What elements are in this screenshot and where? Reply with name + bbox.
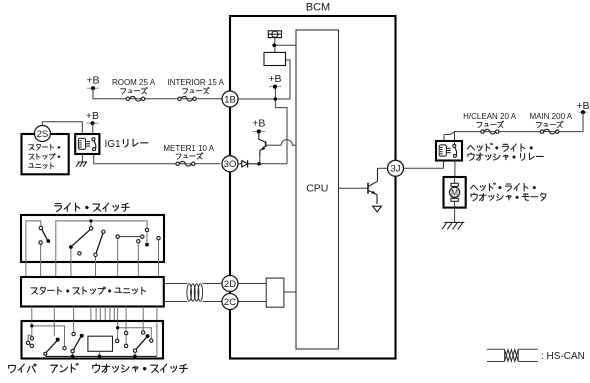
svg-text:3J: 3J (390, 164, 400, 175)
svg-text:MAIN 200 A: MAIN 200 A (529, 112, 572, 121)
svg-text:+B: +B (86, 110, 99, 122)
svg-text:INTERIOR 15 A: INTERIOR 15 A (167, 78, 224, 87)
svg-text:METER1 10 A: METER1 10 A (163, 144, 214, 153)
svg-text:1B: 1B (224, 94, 236, 105)
svg-text:: HS-CAN: : HS-CAN (541, 351, 585, 362)
svg-text:IG1: IG1 (105, 139, 122, 150)
svg-text:2C: 2C (224, 297, 236, 308)
svg-text:M: M (451, 188, 458, 198)
svg-text:+B: +B (86, 75, 99, 87)
svg-text:2D: 2D (224, 279, 236, 290)
svg-text:ROOM 25 A: ROOM 25 A (112, 78, 156, 87)
svg-text:CPU: CPU (306, 183, 328, 195)
svg-text:+B: +B (268, 73, 281, 85)
svg-text:BCM: BCM (306, 2, 330, 14)
svg-text:+B: +B (252, 118, 265, 130)
svg-text:+B: +B (576, 100, 589, 112)
svg-text:H/CLEAN 20 A: H/CLEAN 20 A (463, 112, 517, 121)
svg-text:3O: 3O (224, 159, 237, 170)
svg-text:2S: 2S (37, 129, 49, 140)
